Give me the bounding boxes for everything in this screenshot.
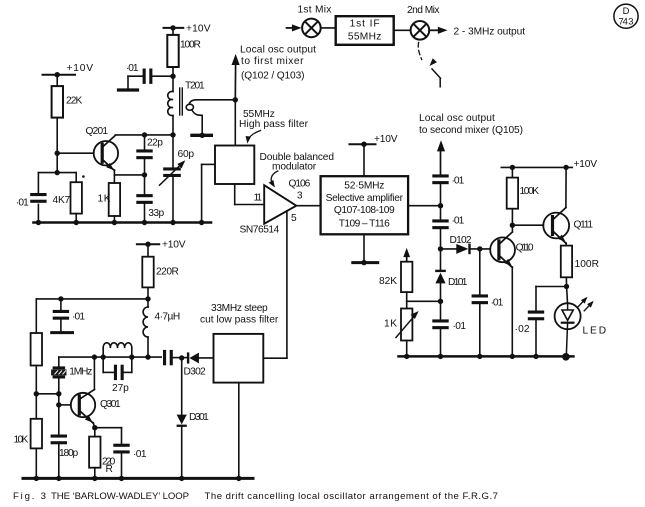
svg-text:·01: ·01: [491, 298, 504, 309]
svg-text:+10V: +10V: [67, 63, 94, 74]
svg-text:Fig. 3: Fig. 3: [13, 491, 46, 502]
svg-text:4K7: 4K7: [53, 195, 71, 206]
svg-text:D301: D301: [189, 412, 209, 423]
svg-text:1K: 1K: [384, 319, 397, 330]
svg-text:33p: 33p: [148, 208, 164, 219]
svg-text:22p: 22p: [147, 138, 163, 149]
svg-text:High pass filter: High pass filter: [239, 119, 309, 130]
svg-text:·01: ·01: [453, 321, 467, 332]
svg-text:1K: 1K: [98, 194, 111, 205]
svg-text:cut low pass filter: cut low pass filter: [200, 314, 279, 325]
svg-text:to first mixer: to first mixer: [241, 56, 304, 67]
svg-text:27p: 27p: [112, 383, 129, 394]
svg-text:3: 3: [297, 191, 303, 202]
svg-text:1MHz: 1MHz: [69, 367, 92, 378]
svg-text:Selective amplifier: Selective amplifier: [326, 193, 404, 204]
svg-text:R: R: [106, 464, 113, 475]
svg-text:·01: ·01: [452, 216, 465, 227]
svg-text:100R: 100R: [180, 39, 201, 50]
svg-text:Local osc output: Local osc output: [419, 113, 495, 124]
svg-text:220R: 220R: [156, 267, 179, 278]
svg-text:modulator: modulator: [272, 162, 317, 173]
svg-text:60p: 60p: [178, 149, 195, 160]
svg-text:(Q102 / Q103): (Q102 / Q103): [241, 71, 305, 82]
svg-text:·01: ·01: [16, 198, 29, 209]
svg-text:2 - 3MHz output: 2 - 3MHz output: [454, 27, 526, 38]
svg-text:·01: ·01: [126, 63, 139, 74]
svg-text:·01: ·01: [72, 311, 85, 322]
svg-text:100K: 100K: [520, 186, 540, 197]
svg-text:55MHz: 55MHz: [348, 31, 381, 42]
svg-text:to second mixer (Q105): to second mixer (Q105): [419, 125, 523, 136]
svg-text:LED: LED: [583, 326, 607, 337]
svg-text:+10V: +10V: [162, 240, 186, 251]
svg-text:+10V: +10V: [374, 134, 398, 145]
svg-text:·01: ·01: [452, 176, 465, 187]
svg-text:D302: D302: [184, 367, 207, 378]
svg-text:33MHz steep: 33MHz steep: [211, 303, 268, 314]
svg-text:T109 – T116: T109 – T116: [339, 219, 390, 230]
svg-text:Local osc output: Local osc output: [240, 45, 316, 56]
svg-text:D101: D101: [448, 277, 468, 288]
svg-text:Q111: Q111: [574, 219, 594, 230]
svg-text:22K: 22K: [66, 96, 83, 107]
svg-text:100R: 100R: [575, 259, 600, 270]
svg-text:T201: T201: [185, 81, 205, 92]
svg-text:5: 5: [291, 213, 297, 224]
svg-text:SN76514: SN76514: [240, 225, 280, 236]
svg-text:Q107-108-109: Q107-108-109: [334, 205, 395, 216]
svg-text:Q201: Q201: [86, 126, 109, 137]
svg-text:D102: D102: [450, 235, 472, 246]
svg-text:Q106: Q106: [289, 178, 311, 189]
svg-text:·02: ·02: [515, 324, 530, 335]
svg-text:+10V: +10V: [574, 159, 598, 170]
svg-text:1st Mix: 1st Mix: [298, 5, 332, 16]
svg-text:82K: 82K: [379, 276, 397, 287]
svg-text:Q110: Q110: [516, 243, 534, 254]
svg-text:THE ‘BARLOW-WADLEY’ LOOP: THE ‘BARLOW-WADLEY’ LOOP: [51, 491, 189, 502]
svg-text:·01: ·01: [133, 449, 147, 460]
svg-text:2nd Mix: 2nd Mix: [407, 5, 440, 16]
svg-text:74 3: 74 3: [619, 16, 634, 27]
svg-text:52·5MHz: 52·5MHz: [344, 181, 384, 192]
svg-text:11: 11: [254, 193, 263, 204]
svg-text:The drift cancelling local osc: The drift cancelling local oscillator ar…: [205, 491, 498, 502]
svg-text:D: D: [623, 5, 630, 16]
svg-text:180p: 180p: [59, 448, 79, 459]
svg-text:4·7µH: 4·7µH: [155, 311, 181, 322]
svg-text:10K: 10K: [14, 434, 29, 445]
svg-text:1st IF: 1st IF: [350, 18, 380, 29]
svg-text:Q301: Q301: [100, 399, 121, 410]
svg-text:+10V: +10V: [186, 23, 211, 34]
